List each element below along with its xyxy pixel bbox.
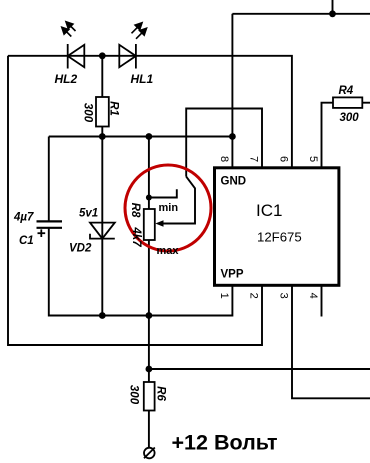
svg-text:VD2: VD2 <box>69 243 92 255</box>
wire left outer loop to pin2 <box>8 56 262 345</box>
LED HL1 arrows <box>132 23 147 39</box>
wire VD2 column <box>101 137 103 316</box>
svg-text:IC1: IC1 <box>256 201 282 220</box>
svg-text:4k7: 4k7 <box>130 226 142 247</box>
wire bottom rail y=369 <box>149 368 370 370</box>
node pin8 rail <box>229 133 236 140</box>
op IC1 box <box>215 168 339 285</box>
wire R1 column lower <box>101 127 103 137</box>
wire wiper slant <box>158 177 195 224</box>
svg-text:+12 Вольт: +12 Вольт <box>172 431 278 455</box>
node R6 top rail <box>146 366 153 373</box>
R8 wiper arrowhead <box>155 220 163 227</box>
svg-text:3: 3 <box>278 293 290 299</box>
node HL junction <box>99 52 106 59</box>
svg-text:2: 2 <box>248 293 260 299</box>
capacitor C1 <box>37 221 63 227</box>
wire pot column bottom to R6 <box>148 240 150 382</box>
svg-text:5: 5 <box>307 156 319 162</box>
wire stub up at x=332.5 <box>332 0 334 14</box>
svg-text:300: 300 <box>128 385 140 405</box>
svg-text:HL2: HL2 <box>55 72 78 86</box>
wire pot column top <box>148 137 150 210</box>
zener diode VD2 <box>90 223 115 239</box>
svg-text:min: min <box>159 202 179 214</box>
node R1 bottom rail <box>99 133 106 140</box>
node wiper min <box>146 195 152 201</box>
wire mid rail y=136.5 <box>49 136 233 138</box>
wire min stop <box>149 189 177 197</box>
wire R6 to connector <box>148 411 150 448</box>
wire R4 right lead <box>362 102 370 104</box>
svg-text:300: 300 <box>340 112 360 124</box>
svg-text:8: 8 <box>218 156 230 162</box>
wire pin7 link to pot wiper <box>186 109 262 177</box>
svg-text:C1: C1 <box>19 235 34 247</box>
svg-text:6: 6 <box>278 156 290 162</box>
node junction dots <box>99 10 336 372</box>
wire pin5 to R4 <box>322 103 334 168</box>
svg-text:R6: R6 <box>154 386 166 401</box>
svg-text:HL1: HL1 <box>131 72 154 86</box>
resistor R4 <box>333 97 362 108</box>
C1 plus sign <box>38 229 46 237</box>
wire top rail y=55.8 from left loop to pin6 <box>8 56 292 168</box>
svg-text:max: max <box>157 245 180 257</box>
wire pin8 column from top line <box>231 14 233 168</box>
node top line <box>329 10 336 17</box>
svg-text:4µ7: 4µ7 <box>13 212 34 224</box>
svg-text:300: 300 <box>81 103 93 123</box>
wire top line y=13.8 <box>232 13 370 15</box>
svg-text:7: 7 <box>248 156 260 162</box>
LED HL2 <box>68 44 85 69</box>
node pot bottom rail <box>146 312 153 319</box>
svg-text:12F675: 12F675 <box>257 229 302 244</box>
svg-text:VPP: VPP <box>221 269 244 281</box>
resistor R1 <box>96 97 109 127</box>
wire C1 column upper <box>48 137 50 222</box>
connector X1 <box>144 448 155 459</box>
LED HL2 arrows <box>62 22 76 37</box>
svg-text:R8: R8 <box>129 203 141 218</box>
svg-text:1: 1 <box>218 293 230 299</box>
potentiometer R8 body <box>144 209 155 240</box>
LED HL1 <box>119 44 136 69</box>
wire R1 column upper <box>101 56 103 97</box>
svg-text:4: 4 <box>307 293 319 299</box>
node pot top rail <box>146 133 153 140</box>
svg-text:5v1: 5v1 <box>79 208 98 220</box>
svg-text:R1: R1 <box>108 101 120 116</box>
svg-text:GND: GND <box>221 176 247 188</box>
wire C1 column lower and ground rail to pin1 <box>49 228 233 316</box>
red marker circle <box>125 165 211 251</box>
wire pin4 stub <box>321 285 323 316</box>
wire pin3 bottom exit <box>292 285 370 398</box>
resistor R6 <box>144 382 155 411</box>
svg-text:R4: R4 <box>339 85 354 97</box>
node VD2 bottom rail <box>99 312 106 319</box>
